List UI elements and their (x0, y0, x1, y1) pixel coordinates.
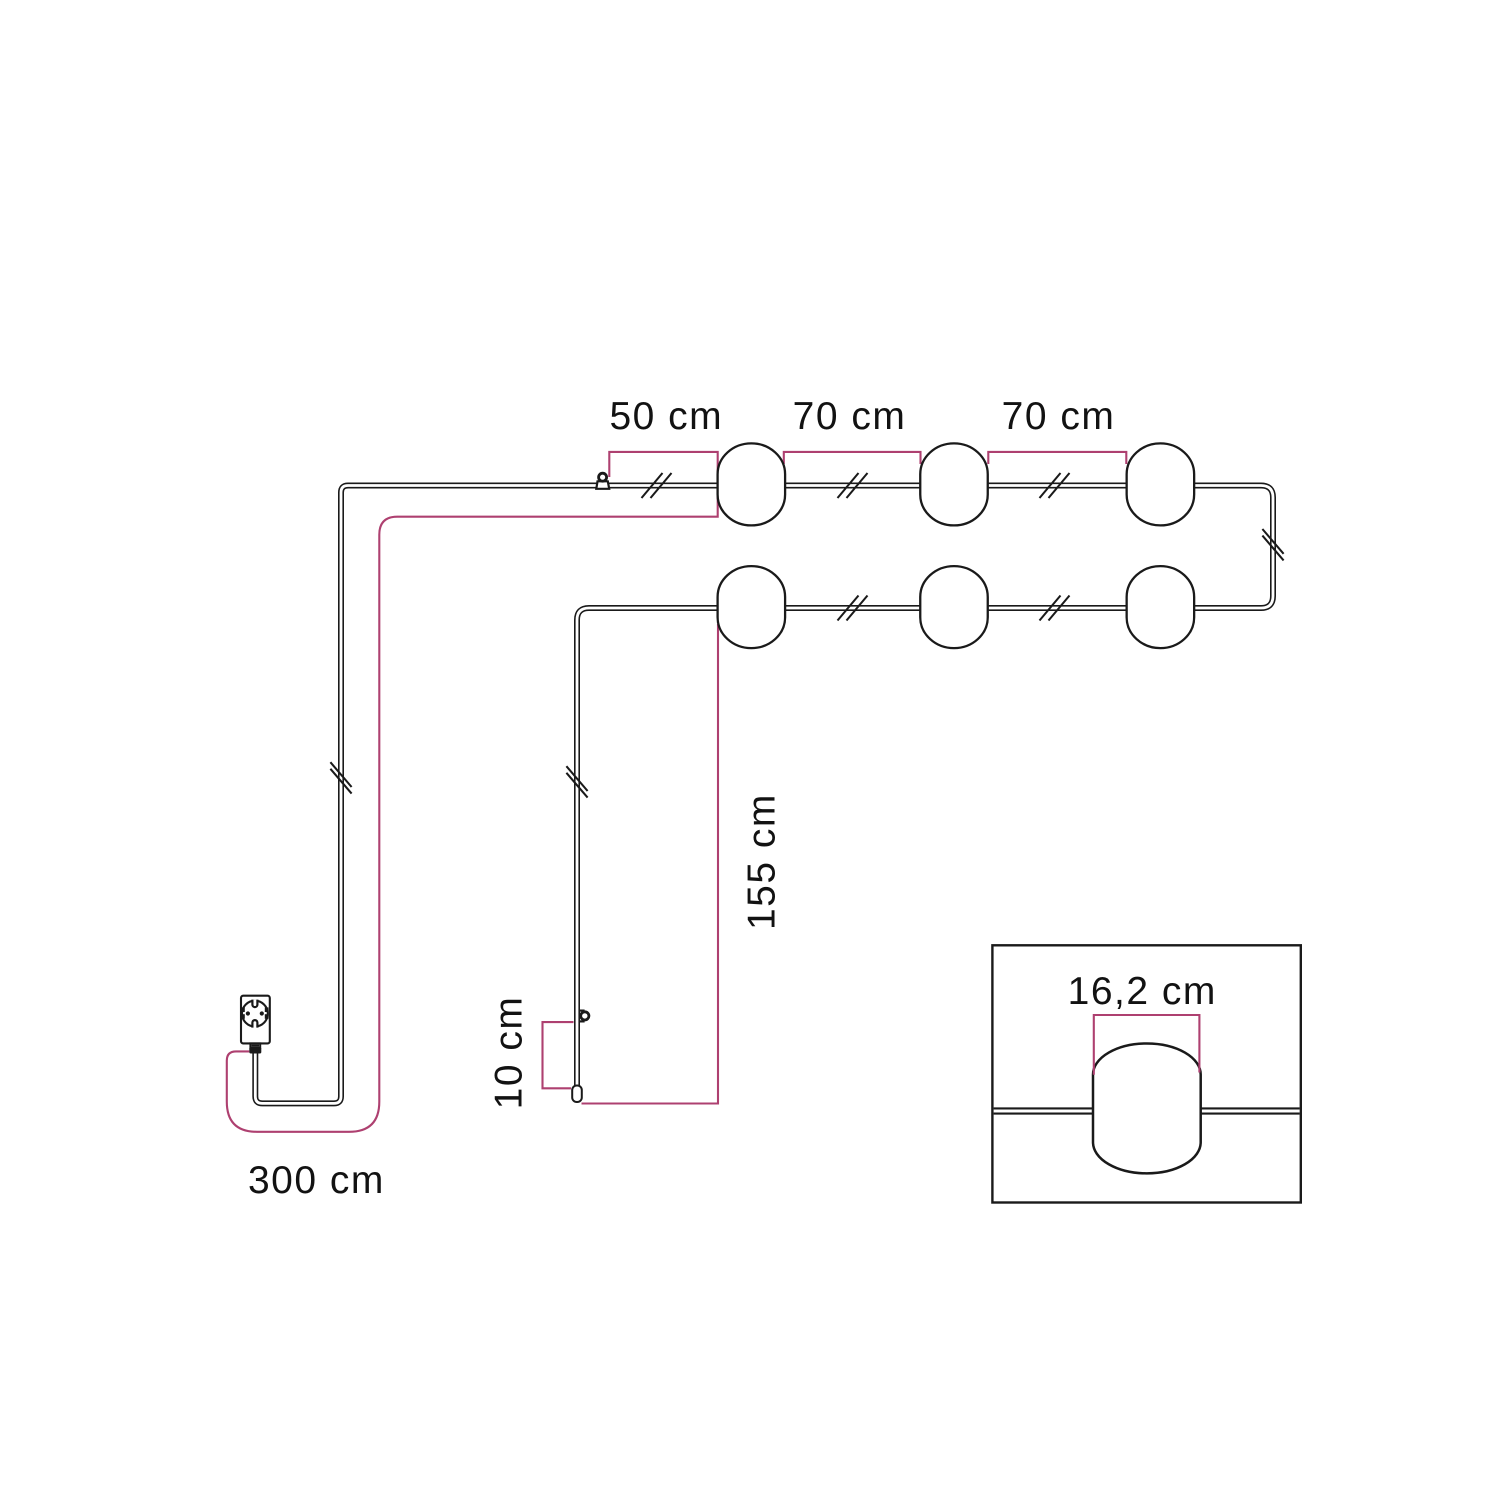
svg-text:10 cm: 10 cm (488, 996, 531, 1110)
svg-text:70 cm: 70 cm (793, 395, 907, 438)
svg-text:16,2 cm: 16,2 cm (1068, 970, 1217, 1013)
svg-text:70 cm: 70 cm (1002, 395, 1116, 438)
svg-text:300 cm: 300 cm (248, 1159, 385, 1202)
svg-text:50 cm: 50 cm (609, 395, 723, 438)
svg-text:155 cm: 155 cm (741, 793, 784, 930)
